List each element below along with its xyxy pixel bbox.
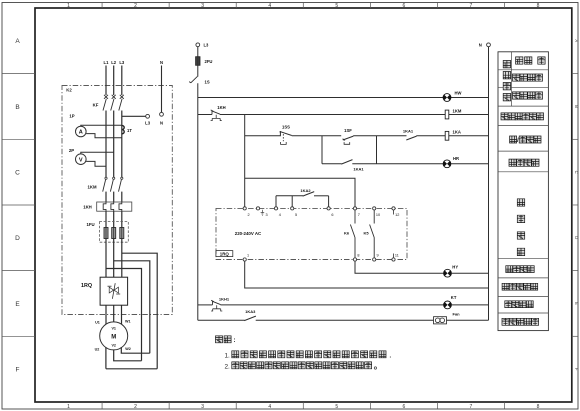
bypass wire L3 side (to motor U2) [122, 253, 157, 369]
svg-text:A: A [15, 38, 20, 45]
wire L3 drop [121, 66, 123, 96]
svg-text:6: 6 [402, 3, 405, 9]
svg-text:K2: K2 [66, 88, 72, 93]
current transformer 1T on L3 [122, 125, 124, 133]
wire ammeter loop bottom (step) [86, 134, 122, 138]
rung: overload indication [198, 304, 213, 306]
svg-text:1KA1: 1KA1 [403, 129, 414, 134]
svg-text:E: E [574, 302, 579, 305]
svg-text:D: D [574, 236, 579, 239]
svg-text:8: 8 [357, 254, 359, 258]
wire: terminal 1 to N (soft start power) [245, 261, 489, 288]
terminal 3 (top) [256, 207, 259, 210]
vertical label 控制电源 (control power) [503, 61, 510, 68]
svg-text:6: 6 [331, 213, 333, 217]
label 起/停控制 (start/stop control) [510, 136, 517, 143]
svg-text:N: N [160, 60, 163, 65]
svg-text:L3: L3 [204, 43, 210, 48]
svg-text:L3: L3 [119, 60, 125, 65]
svg-text:B: B [15, 104, 19, 111]
svg-text:5: 5 [335, 3, 338, 9]
svg-text:C: C [574, 171, 579, 174]
bypass wire L2 side (to motor W2) [114, 261, 150, 353]
terminal 6 (top) [327, 207, 330, 210]
svg-text:KT: KT [451, 295, 457, 300]
junction to seal-in branch [322, 135, 341, 137]
svg-text:1KH1: 1KH1 [219, 297, 230, 302]
indicator lamp HR (running) [443, 160, 451, 168]
left control bus [197, 83, 199, 320]
svg-text:1RQ: 1RQ [81, 283, 92, 289]
rung: main contactor coil [198, 114, 212, 116]
svg-text:V1: V1 [111, 326, 116, 330]
thyristor pair symbol [112, 283, 115, 299]
terminal 12 (top) [392, 207, 395, 210]
svg-text:U2: U2 [95, 348, 100, 352]
legend sub-column control power [511, 52, 513, 106]
svg-text:U1: U1 [95, 321, 100, 325]
rung: cabinet door fan [198, 319, 245, 321]
wire ammeter loop top [81, 125, 122, 126]
svg-text:V2: V2 [111, 343, 116, 347]
svg-text:1KA: 1KA [453, 130, 461, 135]
fuse element at x=113.7 [112, 228, 116, 239]
thermal NC contact 1KH [211, 111, 213, 115]
svg-text:M: M [111, 335, 116, 341]
wire L2 drop [113, 66, 115, 96]
svg-text:HY: HY [452, 265, 458, 270]
svg-text:1SS: 1SS [282, 125, 290, 130]
svg-text:8: 8 [537, 3, 540, 9]
svg-text:3: 3 [201, 404, 204, 410]
svg-text:HW: HW [455, 90, 462, 95]
svg-text:1T: 1T [127, 128, 132, 133]
svg-text:W2: W2 [125, 347, 131, 351]
svg-text:1KM: 1KM [87, 184, 96, 189]
svg-text:10: 10 [376, 213, 380, 217]
label 柜门上风扇 (cabinet door fan) [502, 318, 509, 325]
svg-text:3: 3 [201, 3, 204, 9]
svg-text:B: B [574, 105, 579, 108]
fuse element at x=121.8 [120, 228, 124, 239]
label 主电源接触器 (main contactor) [501, 113, 508, 120]
svg-text:1S: 1S [205, 80, 210, 85]
svg-text:E: E [15, 301, 20, 308]
wire L1 drop [105, 66, 107, 96]
rung: start/stop control [245, 135, 278, 137]
indicator lamp HW (power on) [443, 94, 451, 102]
stubs terminal 12/11 [393, 210, 395, 215]
svg-text:W1: W1 [125, 320, 131, 324]
indicator lamp KT (overload) [444, 301, 452, 309]
svg-text:N: N [479, 43, 482, 48]
svg-text:2: 2 [134, 404, 137, 410]
terminal 11 (bottom) [392, 258, 395, 261]
svg-text:1KH: 1KH [217, 105, 225, 110]
seal-in contact 1KA1 (NO) [341, 160, 352, 165]
vertical label 软起动器 (soft starter) [517, 199, 524, 206]
legend table frame [498, 52, 548, 331]
svg-text:4: 4 [268, 3, 271, 9]
terminal 8 (bottom) [353, 258, 356, 261]
enclosure boundary K2 (dash-dot box) [62, 86, 172, 315]
relay coil 1KA [445, 131, 449, 140]
svg-text:N: N [160, 121, 163, 126]
svg-text:1P: 1P [69, 113, 74, 118]
jumper 4-5 and remote contact 1KA2 to 6 [276, 195, 303, 197]
svg-text:1KH: 1KH [83, 204, 92, 209]
motor M [100, 322, 128, 350]
terminal 9 (bottom) [373, 258, 376, 261]
svg-text:F: F [16, 366, 20, 373]
svg-text:3: 3 [266, 213, 268, 217]
wire motor U2 to bypass [106, 347, 157, 369]
N bus [487, 43, 491, 47]
svg-text:1KA3: 1KA3 [245, 309, 256, 314]
svg-text:1: 1 [247, 254, 249, 258]
svg-text:12: 12 [395, 213, 399, 217]
soft starter control block 1RQ (dash-dot box) [216, 208, 407, 259]
label 熔断器 (fuse) [516, 57, 523, 64]
terminal 1 (bottom) [243, 258, 246, 261]
circuit breaker KF (3-pole) [104, 95, 108, 99]
svg-text:6: 6 [402, 404, 405, 410]
svg-text:220-240V AC: 220-240V AC [235, 231, 262, 236]
control fuse 2FU [196, 57, 200, 66]
terminal 5 (top) [291, 207, 294, 210]
svg-text:A: A [79, 130, 83, 136]
label 电源指示 (power indicator) [513, 92, 520, 99]
svg-text:7: 7 [470, 404, 473, 410]
svg-text:L1: L1 [104, 60, 110, 65]
label 故障指示 (fault indicator) [506, 266, 513, 273]
svg-text:2: 2 [247, 213, 249, 217]
internal relay contact K6 [354, 210, 356, 224]
wire motor W2 to bypass [121, 347, 150, 353]
svg-text:1RQ: 1RQ [220, 251, 230, 256]
boxed label 1RQ [216, 251, 233, 257]
tap from L3 phase to terminal L3 [122, 115, 146, 117]
fuse element at x=106 [104, 228, 108, 239]
label 软启动电源 (soft start power) [502, 283, 509, 290]
wire motor V2 to bypass [114, 350, 142, 361]
svg-text:L3: L3 [145, 121, 151, 126]
svg-text:2FU: 2FU [205, 59, 213, 64]
label 电源开关 (power switch) [513, 74, 520, 81]
wire: feed to soft starter terminal 2 [244, 115, 246, 207]
control supply terminal L3 [196, 43, 200, 47]
terminal 7 (top) [353, 207, 356, 210]
svg-text:8: 8 [537, 404, 540, 410]
svg-text:1SF: 1SF [344, 128, 352, 133]
svg-text:2.: 2. [225, 363, 231, 370]
svg-text:4: 4 [279, 213, 281, 217]
svg-text:9: 9 [377, 254, 379, 258]
ammeter A with 1P [76, 126, 87, 137]
wire: terminal 8 to fault lamp [355, 261, 444, 273]
svg-text:V: V [79, 157, 83, 163]
svg-text:L2: L2 [111, 60, 117, 65]
indicator lamp HY (fault) [444, 269, 452, 277]
svg-text:1.: 1. [225, 352, 231, 359]
svg-text:KF: KF [93, 103, 99, 108]
svg-text::: : [233, 337, 235, 344]
terminal 4 (top) [274, 207, 277, 210]
wires 1RQ to motor [105, 305, 107, 325]
terminal 10 (top) [373, 207, 376, 210]
svg-text:1FU: 1FU [86, 222, 94, 227]
contactor coil 1KM [445, 110, 449, 119]
seal-in branch wires [321, 136, 323, 164]
control switch 1S [197, 65, 199, 76]
svg-text:11: 11 [395, 254, 399, 258]
svg-text:D: D [15, 235, 20, 242]
wire: feed to terminal 7 [245, 178, 355, 207]
label 过载指示 (overload indicator) [505, 301, 512, 308]
internal relay contact K5 [373, 210, 375, 224]
terminal 2 (top) [243, 207, 246, 210]
svg-text:1KA1: 1KA1 [353, 166, 364, 171]
label 运行指示 (run indicator) [509, 159, 516, 166]
bypass wire L1 side (to motor V2) [106, 269, 142, 361]
svg-text:C: C [15, 169, 20, 176]
svg-text:1: 1 [67, 3, 70, 9]
fuse group 1FU (dashed box) [99, 222, 128, 243]
notes heading 附注： [216, 336, 223, 343]
rung: power indicator [198, 97, 489, 99]
svg-text:2P: 2P [69, 148, 74, 153]
svg-text:5: 5 [295, 213, 297, 217]
soft starter power unit 1RQ (thyristor block) [100, 277, 128, 305]
svg-text:2: 2 [134, 3, 137, 9]
svg-text:1KM: 1KM [453, 108, 462, 113]
svg-text:F: F [574, 368, 579, 371]
svg-text:7: 7 [470, 3, 473, 9]
svg-text:/: / [517, 137, 519, 144]
svg-text:4: 4 [268, 404, 271, 410]
svg-text:1: 1 [67, 404, 70, 410]
svg-text:K5: K5 [363, 231, 369, 236]
thermal overload relay 1KH (heater box) [97, 202, 132, 211]
svg-text:A: A [574, 39, 579, 42]
svg-text:5: 5 [335, 404, 338, 410]
svg-text:1KA2: 1KA2 [300, 188, 311, 193]
wire voltmeter bottom (step) [86, 161, 106, 166]
svg-text:7: 7 [358, 213, 360, 217]
svg-text:K6: K6 [344, 230, 350, 235]
svg-text:HR: HR [453, 156, 459, 161]
wire voltmeter top [81, 152, 114, 154]
fan symbol [434, 317, 447, 324]
svg-text:Fan: Fan [453, 312, 461, 317]
